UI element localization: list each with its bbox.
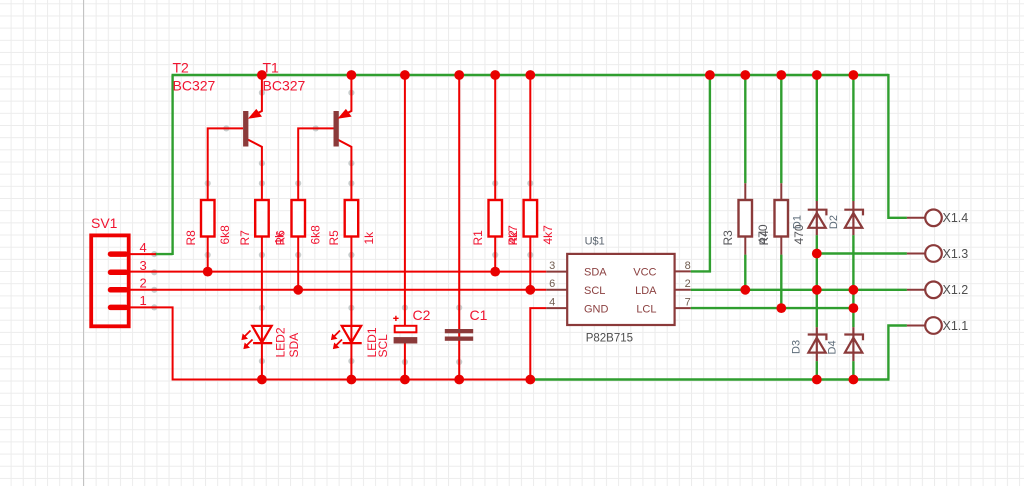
svg-text:3: 3 (549, 260, 555, 272)
wire R2 top (529, 75, 531, 290)
svg-text:D4: D4 (827, 340, 839, 354)
C2 plus sign (393, 316, 398, 321)
wire net GND row 1 and rail (129, 307, 531, 379)
svg-text:2: 2 (140, 276, 147, 291)
svg-text:D2: D2 (828, 215, 840, 229)
wire net SDA row 3 (129, 271, 547, 273)
wire net LCL row (691, 307, 854, 309)
terminal X1.1 (907, 325, 925, 327)
wire C2 top (404, 75, 406, 326)
resistor R1 (489, 200, 503, 237)
svg-text:LCL: LCL (636, 303, 656, 315)
svg-text:6k8: 6k8 (218, 225, 232, 245)
junction dots SDA row (203, 267, 500, 277)
wire D3 bottom to GND rail (816, 361, 818, 379)
resistor R5 (345, 200, 359, 237)
wire T2 base to R8 (208, 128, 243, 271)
wire net X1.1 to GND rail (888, 326, 907, 380)
svg-text:R8: R8 (184, 230, 198, 246)
junction dots LCL row (776, 303, 858, 313)
svg-text:SCL: SCL (376, 334, 390, 358)
junction dots SCL row (293, 285, 535, 295)
svg-text:R7: R7 (238, 230, 252, 246)
svg-text:SDA: SDA (287, 333, 301, 358)
svg-text:VCC: VCC (633, 267, 656, 279)
LED LED2 (252, 326, 272, 343)
wire R3 bottom to LDA (744, 255, 746, 290)
svg-text:4: 4 (140, 240, 147, 255)
svg-text:7: 7 (685, 296, 691, 308)
junction dot X1.3 row (812, 249, 822, 259)
svg-text:C2: C2 (413, 307, 431, 323)
svg-text:BC327: BC327 (263, 77, 306, 93)
wire GND riser to U$1 pin 4 (530, 308, 546, 379)
junction dots GND rail (257, 375, 858, 385)
wire D4 bottom to GND rail (852, 361, 854, 379)
svg-text:R5: R5 (327, 230, 341, 246)
wire D2 anode to D4 (852, 235, 854, 327)
terminal X1.3 (907, 253, 925, 255)
wire T2 collector to R7 (248, 140, 262, 380)
LED LED1 (342, 326, 362, 343)
wire VCC to U$1 pin 8 (691, 75, 710, 271)
wire T1 emitter riser (344, 75, 352, 115)
wire T2 emitter riser (254, 75, 262, 115)
svg-text:GND: GND (584, 303, 609, 315)
resistor R8 (201, 200, 215, 237)
svg-text:2: 2 (685, 278, 691, 290)
svg-text:1: 1 (140, 293, 147, 308)
capacitor C2 polarized (395, 326, 417, 333)
wire C2 bottom (404, 344, 406, 380)
svg-text:8: 8 (685, 260, 691, 272)
svg-text:R4: R4 (757, 230, 771, 246)
LED1 emission arrows (332, 331, 343, 349)
resistor R6 (292, 200, 306, 237)
svg-text:LED2: LED2 (273, 327, 287, 357)
wire R4 top (780, 75, 782, 183)
junction dots top rail (257, 70, 858, 80)
svg-text:R6: R6 (274, 230, 288, 246)
U$1 pin 6 SCL stub (546, 289, 567, 291)
svg-text:D3: D3 (791, 340, 803, 354)
op-amp/IC U$1 P82B715 (567, 254, 674, 325)
wire T1 collector to R5 (338, 140, 352, 380)
diode D3 (808, 327, 827, 361)
svg-text:P82B715: P82B715 (586, 332, 633, 344)
wire R4 bottom to LCL (780, 255, 782, 309)
transistor T1 (334, 111, 339, 147)
capacitor C1 (445, 329, 473, 333)
diode D2 (844, 201, 863, 235)
wire SV1 pin 4 stub (129, 253, 156, 255)
svg-text:R3: R3 (721, 230, 735, 246)
U$1 pin 2 LDA stub (675, 289, 691, 291)
wire D1 top (816, 75, 818, 201)
wire R3 top (744, 75, 746, 183)
svg-text:X1.1: X1.1 (943, 319, 969, 333)
terminal X1.4 (907, 217, 925, 219)
wire T1 base to R6 (298, 128, 333, 289)
terminal X1.2 (907, 289, 925, 291)
resistor R7 (255, 200, 269, 237)
svg-text:SV1: SV1 (91, 215, 118, 231)
wire C1 (458, 75, 460, 380)
svg-text:1k: 1k (362, 231, 376, 245)
svg-text:SCL: SCL (584, 285, 605, 297)
diode D1 (808, 201, 827, 235)
wire R1 top (494, 75, 496, 272)
svg-text:SDA: SDA (584, 267, 607, 279)
svg-text:X1.2: X1.2 (943, 283, 969, 297)
svg-text:X1.3: X1.3 (943, 247, 969, 261)
wire VCC drop to X1.4 (888, 74, 907, 218)
U$1 pin 3 SDA stub (546, 271, 567, 273)
wire D1 anode to D3 (816, 235, 818, 327)
transistor T2 (243, 111, 248, 147)
U$1 pin 4 GND stub (546, 307, 567, 309)
svg-text:BC327: BC327 (173, 77, 216, 93)
svg-text:3: 3 (140, 258, 147, 273)
LED2 emission arrows (242, 331, 253, 349)
svg-text:X1.4: X1.4 (943, 211, 969, 225)
resistor R2 (524, 200, 538, 237)
net VCC top rail wire (155, 75, 889, 255)
svg-text:LDA: LDA (635, 285, 657, 297)
wire net LDA row (691, 289, 907, 291)
resistor R3 (744, 183, 746, 254)
resistor R4 (780, 183, 782, 254)
wire net SCL row 2 (129, 289, 547, 291)
wire GND rail green segment (529, 378, 889, 380)
svg-text:R1: R1 (471, 230, 485, 246)
svg-text:D1: D1 (791, 215, 803, 229)
svg-text:T2: T2 (173, 60, 190, 76)
svg-text:R2: R2 (506, 230, 520, 246)
junction dots LDA row (740, 285, 858, 295)
svg-text:6: 6 (549, 278, 555, 290)
wire D2 top (852, 75, 854, 201)
svg-text:C1: C1 (470, 307, 488, 323)
svg-text:4k7: 4k7 (541, 225, 555, 245)
diode D4 (844, 327, 863, 361)
pin endpoint markers (151, 90, 533, 366)
connector SV1 (91, 235, 129, 326)
svg-text:6k8: 6k8 (309, 225, 323, 245)
svg-text:U$1: U$1 (585, 235, 605, 247)
svg-text:4: 4 (549, 296, 555, 308)
U$1 pin 7 LCL stub (675, 307, 691, 309)
wire net X1.3 row (817, 252, 907, 254)
U$1 pin 8 VCC stub (675, 270, 691, 272)
